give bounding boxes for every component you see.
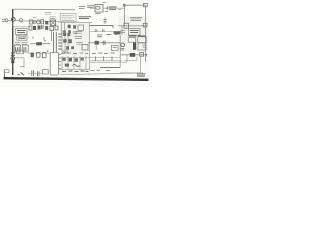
capacitor C17 <box>62 57 65 60</box>
box above bar <box>42 70 48 74</box>
label top ref <box>102 1 106 3</box>
wire aux <box>90 31 122 33</box>
diode D9 <box>31 53 34 58</box>
switch S1 blob <box>11 61 14 64</box>
capacitor C19 <box>32 70 34 76</box>
bottom border bar <box>4 78 149 80</box>
ground bus bottom <box>60 73 143 75</box>
label K1 text <box>17 31 26 33</box>
capacitor C10 <box>71 46 74 49</box>
connector J2 <box>144 3 148 6</box>
capacitor C1 <box>19 19 22 22</box>
transistor Q1 <box>63 33 66 36</box>
label row above cluster <box>61 52 88 54</box>
label Q3 <box>95 11 108 13</box>
label horiz out text <box>128 35 146 37</box>
wire dark segment <box>100 67 120 69</box>
capacitor C14 <box>103 41 105 45</box>
wire vertical <box>119 58 121 68</box>
capacitor C6 electrolytic <box>23 45 29 52</box>
label text col <box>75 31 84 44</box>
wire mid light bus <box>60 22 92 24</box>
thermistor TH2 on mains <box>11 53 15 55</box>
node tick up <box>47 50 49 52</box>
box lower right <box>138 43 146 50</box>
label text row mid right <box>92 52 115 54</box>
resistor R11 box <box>111 45 118 50</box>
scan haze center cluster <box>60 23 90 54</box>
diode D5 <box>36 42 42 45</box>
choke box L1 <box>50 27 54 31</box>
wire right bus <box>144 23 146 62</box>
wire L corner <box>90 55 127 62</box>
label header text <box>79 6 95 9</box>
resistor R6 <box>67 33 70 36</box>
wire bottom right jog <box>124 57 137 61</box>
resistor R13 <box>140 53 144 57</box>
fuse F1 <box>11 18 15 22</box>
transformer T1 core <box>55 32 57 53</box>
resistor R7 <box>66 46 69 49</box>
label text bottom mid <box>90 69 110 71</box>
label B+ text <box>107 7 116 10</box>
wire vertical drops <box>62 22 65 36</box>
wire to regulator <box>90 7 124 9</box>
capacitor C20 <box>37 71 39 76</box>
wire top horizontal bus <box>13 8 75 11</box>
diode D7 <box>68 39 71 43</box>
resistor R9 <box>124 23 128 28</box>
node tick right <box>146 53 148 56</box>
switching cluster vertical wires <box>62 22 90 70</box>
resistor R3 <box>45 26 48 30</box>
label row above ground bus <box>62 70 89 72</box>
wire regulator output <box>90 26 113 29</box>
IC U2 box <box>128 28 140 35</box>
diode D6 <box>73 25 76 29</box>
diode D3 <box>33 26 36 30</box>
wire secondary top <box>28 52 50 54</box>
scan haze bottom cluster <box>59 52 90 74</box>
scan haze right cluster <box>118 16 148 52</box>
scan haze top row band <box>28 17 60 32</box>
label degauss text <box>45 13 52 15</box>
small box at frame <box>4 70 9 73</box>
connector J1 shell <box>50 52 58 75</box>
capacitor C15 <box>37 53 40 58</box>
wire from switch <box>14 57 24 59</box>
corner wire <box>20 58 24 68</box>
coil L2 squiggle <box>73 64 80 66</box>
capacitor C8 <box>68 30 71 33</box>
dark blob right of aux <box>114 31 121 34</box>
node tick <box>32 36 34 39</box>
frame left lower <box>3 70 5 78</box>
wire stub down <box>95 45 97 50</box>
wire <box>28 72 42 74</box>
dark marks row2 <box>65 64 69 67</box>
resistor R5 <box>44 37 46 41</box>
capacitor C9 <box>63 39 66 42</box>
capacitor C2 <box>33 20 35 24</box>
IC U1 box <box>82 44 88 50</box>
wire AC input <box>8 19 12 21</box>
component ticks <box>96 56 113 60</box>
node junction <box>123 4 126 7</box>
capacitor C5 electrolytic <box>14 45 20 52</box>
wire vertical right <box>121 26 123 35</box>
resistor R2 <box>41 20 44 24</box>
transistor Q4 heatsink <box>133 43 136 50</box>
capacitor C3 <box>29 26 32 30</box>
regulator Q3 box <box>95 4 103 12</box>
relay box K1 <box>16 29 27 35</box>
wire secondary rail <box>60 57 120 59</box>
wire left vertical mains bus <box>12 9 14 75</box>
diode D4 <box>38 26 41 30</box>
wire right bus segment <box>118 25 147 27</box>
title block <box>137 74 146 77</box>
wire segment <box>60 33 69 35</box>
wire top right loop <box>124 5 145 26</box>
wire primary drop <box>50 31 52 41</box>
connector J1 pins <box>58 55 61 69</box>
wire right drop to title <box>140 56 142 73</box>
wire vertical <box>119 35 121 58</box>
label text row <box>15 43 28 45</box>
diode D11 <box>130 53 135 57</box>
node tick left edge <box>119 9 122 11</box>
resistor R12 <box>81 57 84 60</box>
transformer T1 secondary taps <box>58 34 61 49</box>
wire rectifier output <box>30 43 50 45</box>
small box upper <box>17 50 24 54</box>
resistor R8 <box>103 20 106 22</box>
label IC text right <box>130 18 142 20</box>
capacitor C4 <box>41 25 43 29</box>
wire CRT bus <box>88 42 120 44</box>
resistor R1 <box>30 20 33 24</box>
marks bottom of cluster <box>63 51 68 53</box>
note box text block <box>60 14 76 22</box>
capacitor C16 <box>43 53 46 58</box>
label bridge text <box>50 17 56 19</box>
posistor box <box>17 35 27 40</box>
flyback T2 box <box>128 38 136 43</box>
capacitor C18 <box>75 58 78 62</box>
label schematic title text <box>79 17 92 19</box>
resistor R4 <box>55 26 58 30</box>
thermistor TH1 <box>37 20 41 24</box>
secondary cluster wires <box>62 56 86 70</box>
resistor R10 <box>143 23 147 27</box>
label R text <box>33 16 36 18</box>
diode D1 <box>45 21 48 24</box>
capacitor C7 <box>63 30 66 33</box>
wire mid cluster <box>58 69 90 71</box>
scan haze left cluster <box>14 28 30 54</box>
box outline mid <box>78 25 84 31</box>
wire main bus left <box>15 21 60 22</box>
capacitor C11 <box>95 29 97 32</box>
transformer T1 primary <box>53 32 55 53</box>
bridge rectifier D2 <box>50 20 55 25</box>
resistor marks right cluster <box>121 31 146 47</box>
label value <box>120 48 125 50</box>
wire vertical <box>104 17 106 24</box>
wire top bottom-right <box>120 54 146 56</box>
capacitor C12 <box>102 29 104 32</box>
degauss squiggle <box>18 72 25 75</box>
diode D10 <box>69 58 72 62</box>
label text mid <box>73 32 78 34</box>
lamp DS1 <box>11 57 15 61</box>
wire bottom right horizontal <box>120 72 143 74</box>
HV block box <box>138 37 146 43</box>
wire lower jog <box>13 22 30 27</box>
diode D8 <box>95 41 99 45</box>
transistor Q2 block <box>68 25 71 29</box>
label text <box>97 34 118 36</box>
capacitor C13 <box>121 43 125 47</box>
wire double bus <box>90 60 122 62</box>
AC plug P1 <box>2 20 6 22</box>
